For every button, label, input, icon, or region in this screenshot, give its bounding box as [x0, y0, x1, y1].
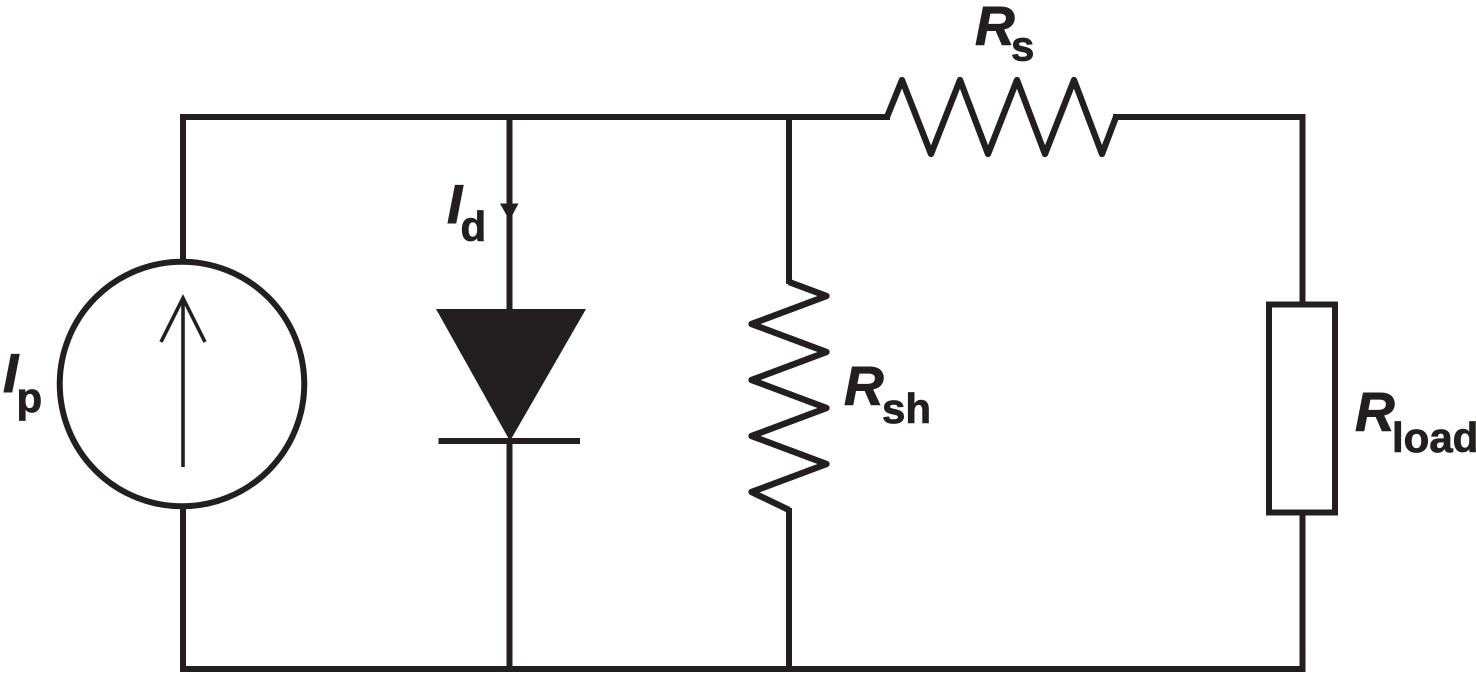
svg-text:d: d	[461, 203, 487, 250]
svg-text:load: load	[1392, 414, 1476, 461]
svg-text:sh: sh	[882, 385, 931, 432]
svg-text:s: s	[1011, 23, 1034, 70]
svg-text:R: R	[975, 0, 1015, 57]
svg-text:R: R	[844, 355, 884, 417]
svg-text:R: R	[1355, 381, 1395, 443]
svg-text:p: p	[17, 374, 43, 421]
